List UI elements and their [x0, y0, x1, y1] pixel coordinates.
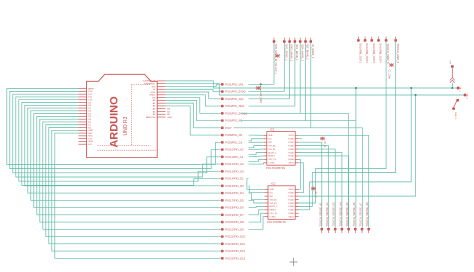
svg-text:D10: D10 — [88, 100, 93, 102]
wire jog to IC1 pin row 7 — [249, 159, 264, 161]
svg-text:OSC_IN: OSC_IN — [268, 159, 276, 161]
wire net PIO_SDA extension — [249, 105, 295, 107]
IC1 left pin OSC_IN — [263, 158, 267, 160]
arduino U1 left pin D2 — [79, 121, 87, 123]
svg-text:PCF-PCF8574N: PCF-PCF8574N — [267, 220, 286, 224]
supply symbol chevrons — [450, 78, 455, 83]
IC2 left pin OSC_IN — [265, 212, 269, 214]
wire jog to IC1 pin row 3 — [249, 146, 264, 148]
svg-text:PIO24/PIO_D12: PIO24/PIO_D12 — [225, 249, 245, 253]
wire net TOUCH_A_2 IC1 to bottom header — [299, 146, 329, 228]
wire net PIO12/PIO_A0 to IC1 pin — [249, 163, 264, 164]
wire net PIO8/PIO_D0 to IC1 pin — [249, 134, 264, 136]
pin header JP1 pin 19 — [221, 214, 223, 216]
svg-text:A5: A5 — [153, 113, 156, 116]
pin header JP3 pin 4 stub — [378, 37, 380, 40]
svg-text:P2/A2: P2/A2 — [288, 144, 294, 147]
svg-text:TOUCH_SENSE_A1: TOUCH_SENSE_A1 — [318, 202, 322, 227]
svg-text:RX0: RX0 — [88, 136, 93, 138]
pin header JP4 pin 8 — [368, 228, 370, 230]
wire net D13 to PIO10/PIO_A2 — [10, 91, 221, 168]
svg-text:TOUCH_SENSE_A8: TOUCH_SENSE_A8 — [365, 202, 369, 227]
svg-text:SCL_MAIN_1: SCL_MAIN_1 — [295, 44, 299, 61]
IC2 right pin P6/A6 — [295, 212, 299, 214]
IC2 right pin P5/A5 — [295, 209, 299, 211]
svg-text:D9: D9 — [88, 102, 92, 104]
svg-text:TOUCH_SENSE_A6: TOUCH_SENSE_A6 — [352, 202, 356, 227]
arduino U1 left pin D0 — [79, 127, 87, 129]
wire net PIO_VIN extension to JP2 pin1 — [249, 83, 275, 85]
pin header JP2 pin 4 stub — [294, 38, 296, 41]
wire net TOUCH_GND to IC2 P6 — [296, 42, 396, 206]
pin header JP1 pin 5 — [221, 112, 223, 114]
arduino U1 left pin D9 — [79, 102, 87, 104]
svg-text:GND: GND — [151, 92, 156, 94]
svg-text:PIO17/PIO_D5: PIO17/PIO_D5 — [225, 198, 244, 202]
svg-text:P5/A5: P5/A5 — [288, 155, 294, 158]
wire net A1 to PIO7 — [166, 103, 221, 128]
arduino U1 right pin IOREF/RST — [157, 83, 165, 85]
wire net D5 to PIO18/PIO_D6 — [34, 114, 221, 208]
svg-text:SALARM_OUT2: SALARM_OUT2 — [365, 43, 369, 63]
wire LED branch — [260, 84, 262, 91]
svg-text:PIO25/PIO_D13: PIO25/PIO_D13 — [225, 256, 245, 260]
pin header JP2 pin 7 stub — [310, 38, 312, 41]
pin header JP2 pin 4 — [294, 40, 296, 42]
svg-text:PIO16/PIO_D4: PIO16/PIO_D4 — [225, 191, 244, 195]
pin header JP4 pin 6 stub — [354, 231, 356, 234]
svg-text:RST: RST — [88, 133, 93, 135]
wire net SDA_MAIN_1 vertical drop — [299, 43, 301, 113]
IC2 left pin SCL — [265, 192, 269, 194]
wire net TOUCH_PWR to IC2 P7 — [296, 42, 386, 203]
wire net INT_MAIN_1 vertical drop — [305, 43, 307, 121]
svg-text:P3/A3: P3/A3 — [288, 148, 294, 151]
IC1 right pin P6/A6 — [295, 158, 299, 160]
IC2 PCF8574 body — [268, 186, 295, 220]
crystal X1 — [311, 187, 316, 191]
pin header JP1 pin 24 — [221, 250, 223, 252]
arduino U1 left pin D12 — [79, 93, 87, 95]
pin header JP2 pin 1 stub — [273, 38, 275, 41]
pin header JP1 pin 13 — [221, 170, 223, 172]
svg-text:PCF-PCF8574N: PCF-PCF8574N — [266, 166, 285, 170]
svg-text:P0/A0: P0/A0 — [288, 138, 294, 141]
IC2 right pin VDD3 — [295, 188, 299, 190]
arduino U1 left pin RST — [79, 132, 87, 134]
svg-text:TOUCH_PWR_5: TOUCH_PWR_5 — [386, 43, 390, 64]
svg-text:GND4: GND4 — [288, 163, 294, 165]
wire net D10 to PIO13/PIO_G0 — [19, 100, 221, 181]
svg-text:A1: A1 — [153, 102, 156, 105]
IC2 left pin TWI_A1 — [265, 202, 269, 204]
pin header JP1 pin 1 — [221, 83, 223, 85]
IC1 left pin SCL — [263, 138, 267, 140]
pin header JP3 pin 1 stub — [357, 37, 359, 40]
wire net RESET long wire B to right edge — [166, 84, 464, 95]
wire net AREF to PIO9/PIO_D1 — [7, 89, 221, 165]
svg-text:AREF: AREF — [88, 87, 94, 90]
arduino U1 right pin 5V0/MAX_IN — [157, 80, 165, 82]
arduino U1 left pin D3 — [79, 118, 87, 120]
svg-text:TX0: TX0 — [88, 138, 93, 140]
pin header JP4 pin 5 — [348, 228, 350, 230]
pin header JP4 pin 1 — [321, 228, 323, 230]
capacitor C1 — [389, 63, 394, 67]
svg-text:SDA: SDA — [269, 188, 274, 191]
IC1 left pin T_REC — [263, 162, 267, 164]
wire net A2 to PIO8/PIO_D0 — [166, 106, 221, 135]
pin header JP1 pin 7 — [221, 127, 223, 129]
IC2 right pin P0/A0 — [295, 192, 299, 194]
svg-text:IO_MAIN_1: IO_MAIN_1 — [311, 44, 315, 59]
wire net RST to PIO25/PIO_D13 — [55, 133, 221, 258]
pin header JP2 pin 6 — [304, 40, 306, 42]
svg-text:IOREF/RST: IOREF/RST — [144, 83, 156, 85]
IC1 left pin TWI_A0 — [263, 145, 267, 147]
pin header JP1 pin 25 — [221, 257, 223, 259]
wire net 5V to PIO2/PIO_5V0Q — [166, 89, 221, 91]
svg-text:LED_PWR: LED_PWR — [259, 92, 261, 103]
svg-text:TOUCH_SENSE_A4: TOUCH_SENSE_A4 — [338, 202, 342, 227]
wire net PIO9/PIO_D1 to IC1 pin — [249, 141, 264, 143]
wire net PIO19/PIO_D7 to IC2 pin — [249, 210, 265, 215]
svg-text:TOUCH_SENSE_A7: TOUCH_SENSE_A7 — [359, 202, 363, 227]
svg-text:P1/A1: P1/A1 — [288, 141, 294, 144]
arduino U1 dashed shield boundary — [98, 85, 157, 151]
LED LED1 — [256, 86, 261, 90]
wire net D4 to PIO19/PIO_D7 — [37, 116, 221, 214]
IC2 left pin /INT — [265, 195, 269, 197]
pin header JP1 pin 4 — [221, 105, 223, 107]
svg-text:INT_MAIN_1: INT_MAIN_1 — [306, 44, 310, 60]
wire supply to net A — [451, 83, 453, 89]
pin header JP1 pin 16 — [221, 192, 223, 194]
svg-text:GND: GND — [167, 117, 172, 119]
IC2 left pin SDA — [265, 188, 269, 190]
pin header JP1 pin 15 — [221, 185, 223, 187]
svg-text:SCL: SCL — [269, 193, 274, 195]
pin header JP3 pin 6 stub — [395, 37, 397, 40]
svg-text:P1/A1: P1/A1 — [288, 195, 294, 198]
arduino U1 left pin D6 — [79, 110, 87, 112]
arduino U1 right pin GND — [157, 91, 165, 93]
svg-text:PIO8/PIO_D0: PIO8/PIO_D0 — [225, 133, 242, 137]
arduino U1 right pin A5 — [157, 113, 165, 115]
pin header JP1 pin 22 — [221, 236, 223, 238]
svg-text:GND4: GND4 — [288, 216, 294, 218]
wire net TOUCH_A_3 IC1 to bottom header — [299, 149, 336, 227]
pin header JP1 pin 21 — [221, 228, 223, 230]
arduino U1 left pin AREF — [79, 88, 87, 90]
IC1 right pin P2/A2 — [295, 145, 299, 147]
pin header JP1 pin 14 — [221, 178, 223, 180]
pin header JP3 pin 4 — [377, 39, 379, 41]
arduino U1 left pin D7 — [79, 107, 87, 109]
svg-text:VA_1: VA_1 — [459, 87, 462, 93]
svg-text:PIO3/PIO_SCL: PIO3/PIO_SCL — [225, 97, 244, 101]
arduino U1 right pin 5V — [157, 88, 165, 90]
pin header JP1 pin 3 — [221, 98, 223, 100]
svg-text:RESET: RESET — [269, 210, 276, 212]
svg-text:GND2: GND2 — [149, 95, 156, 97]
IC1 right pin P4/A4 — [295, 152, 299, 154]
svg-text:5V0_SENS_1: 5V0_SENS_1 — [284, 44, 288, 61]
pin header JP4 pin 4 stub — [341, 231, 343, 234]
wire net GND_MAIN_1 vertical drop — [289, 43, 291, 99]
arduino U1 left pin D8 — [79, 104, 87, 106]
svg-text:PIO11/PIO_A1: PIO11/PIO_A1 — [225, 155, 243, 159]
svg-text:D1: D1 — [88, 125, 92, 127]
junction wire B drop — [415, 94, 417, 96]
svg-text:VIN: VIN — [152, 97, 156, 99]
svg-text:PIO7: PIO7 — [225, 126, 232, 130]
wire net IOREF long wire A to right edge — [166, 81, 457, 88]
pin header JP2 pin 7 — [310, 40, 312, 42]
svg-text:T_REC: T_REC — [268, 163, 275, 165]
arduino U1 left pin D1 — [79, 124, 87, 126]
diode D2 — [275, 54, 280, 58]
svg-text:ARDUINO: ARDUINO — [109, 96, 121, 148]
arduino U1 right pin GND2 — [157, 94, 165, 96]
svg-text:TOUCH_SENSE_A2: TOUCH_SENSE_A2 — [325, 202, 329, 227]
wire net 3V3 to PIO1/PIO_VIN — [166, 84, 221, 86]
svg-text:PIO1/PIO_VIN: PIO1/PIO_VIN — [225, 82, 243, 86]
wire net TOUCH_A_4 IC1 to bottom header — [299, 153, 342, 228]
svg-text:SALARM_OUT4: SALARM_OUT4 — [379, 43, 383, 63]
pin header JP3 pin 2 — [364, 39, 366, 41]
svg-text:GND_MAIN_1: GND_MAIN_1 — [290, 44, 294, 62]
svg-text:A0: A0 — [153, 99, 156, 102]
wire net PIO11/PIO_A1 to IC1 pin — [249, 155, 264, 158]
svg-text:SALARM_OUT3: SALARM_OUT3 — [372, 43, 376, 63]
pin header JP1 pin 12 — [221, 163, 223, 165]
wire jog to IC1 pin row 5 — [249, 153, 264, 155]
svg-text:PIO4/PIO_SDA: PIO4/PIO_SDA — [225, 104, 244, 108]
pin header JP4 pin 7 stub — [361, 231, 363, 234]
svg-text:UNO R3: UNO R3 — [123, 116, 129, 135]
wire net D7 to PIO16/PIO_D4 — [28, 108, 221, 193]
svg-text:R_PULLUP_1: R_PULLUP_1 — [274, 60, 276, 75]
wire net D1 to PIO22/PIO_D10 — [46, 125, 221, 237]
pin header JP4 pin 2 — [327, 228, 329, 230]
svg-text:5V: 5V — [153, 89, 156, 91]
svg-text:RESET: RESET — [268, 156, 275, 158]
arduino U1 left pin TX0 — [79, 138, 87, 140]
pin header JP2 pin 2 — [283, 40, 285, 42]
svg-text:A5: A5 — [167, 113, 170, 116]
arduino U1 left pin SDA — [79, 140, 87, 142]
wire net 5V0_SENS_1 vertical drop — [283, 43, 285, 92]
svg-text:/INT: /INT — [268, 142, 273, 144]
pin header JP2 pin 5 stub — [299, 38, 301, 41]
svg-text:TWI_A1: TWI_A1 — [268, 148, 276, 151]
wire net D12 to PIO11/PIO_A1 — [13, 94, 221, 173]
pin header JP4 pin 8 stub — [368, 231, 370, 234]
pin header JP3 pin 5 — [385, 39, 387, 41]
IC1 left pin ADDR_2 — [263, 152, 267, 154]
wire net A0 to PIO6/PIO_I01 — [166, 100, 221, 120]
IC1 left pin /INT — [263, 141, 267, 143]
svg-text:+5V: +5V — [450, 60, 452, 64]
svg-text:GND_1: GND_1 — [454, 112, 456, 120]
IC1 right pin P1/A1 — [295, 141, 299, 143]
svg-text:PIO6/PIO_I01: PIO6/PIO_I01 — [225, 119, 243, 123]
pin header JP4 pin 5 stub — [348, 231, 350, 234]
pin header JP4 pin 6 — [354, 228, 356, 230]
svg-text:AREF/SS: AREF/SS — [146, 116, 156, 119]
IC1 left pin RESET — [263, 155, 267, 157]
pin header JP1 pin 23 — [221, 243, 223, 245]
svg-text:ADDR_2: ADDR_2 — [269, 205, 278, 208]
pin header JP2 pin 5 — [299, 40, 301, 42]
IC2 right pin P3/A3 — [295, 202, 299, 204]
wire jog to IC1 pin row 1 — [249, 139, 264, 141]
wire net PIO15/PIO_D3 to IC2 pin — [249, 186, 265, 193]
IC2 left pin TWI_A0 — [265, 199, 269, 201]
svg-text:D5: D5 — [88, 113, 92, 115]
pin header JP4 pin 1 stub — [321, 231, 323, 234]
wire net D2 to PIO21/PIO_D9 — [43, 122, 221, 229]
svg-text:PIO2/PIO_5V0Q: PIO2/PIO_5V0Q — [225, 90, 245, 94]
pin P4 GND — [453, 108, 455, 110]
IC1 right pin P3/A3 — [295, 148, 299, 150]
wire net PIO_SCL extension — [249, 98, 290, 100]
wire net B drop to IC2 INT — [299, 95, 416, 196]
transistor Q1 diagonal — [454, 100, 458, 108]
IC1 right pin VDD3 — [295, 134, 299, 136]
svg-text:TOUCH_SENSE_A3: TOUCH_SENSE_A3 — [332, 202, 336, 227]
svg-text:D1_X: D1_X — [323, 142, 325, 148]
wire net PIO18/PIO_D6 to IC2 pin — [249, 206, 265, 207]
svg-text:TWI_A1: TWI_A1 — [269, 202, 277, 205]
svg-text:PIO10/PIO_A2: PIO10/PIO_A2 — [225, 148, 244, 152]
svg-text:5V0/MAX_IN: 5V0/MAX_IN — [143, 80, 156, 83]
svg-text:P6/A6: P6/A6 — [288, 212, 294, 215]
IC1 right pin GND4 — [295, 162, 299, 164]
wire net A drop to IC2 P5 — [296, 88, 411, 210]
wire net D9 to PIO14/PIO_D2 — [22, 103, 221, 186]
pin supply P1 — [451, 65, 453, 67]
pin header JP4 pin 4 — [341, 228, 343, 230]
arduino U1 left pin D10 — [79, 99, 87, 101]
svg-text:TWI_A0: TWI_A0 — [268, 144, 276, 147]
svg-text:PIO20/PIO_D8: PIO20/PIO_D8 — [225, 220, 244, 224]
svg-text:SCL: SCL — [88, 144, 93, 146]
svg-text:D3: D3 — [88, 119, 92, 121]
pin header JP3 pin 5 stub — [385, 37, 387, 40]
svg-text:D11: D11 — [88, 97, 93, 99]
IC1 left pin SDA — [263, 134, 267, 136]
IC1 right pin P5/A5 — [295, 155, 299, 157]
svg-text:SDA: SDA — [268, 134, 273, 137]
arduino U1 left pin D4 — [79, 115, 87, 117]
svg-text:VB_1: VB_1 — [465, 94, 467, 100]
pin header JP4 pin 7 — [361, 228, 363, 230]
svg-text:PIO14/PIO_D2: PIO14/PIO_D2 — [225, 177, 244, 181]
supply symbol stem — [451, 68, 453, 78]
wire net 5V0_MAIN_1 vertical drop — [273, 43, 275, 84]
svg-text:ADDR_2: ADDR_2 — [268, 151, 277, 154]
wire vertical tie bottom header pin 6 to wire A — [355, 88, 357, 121]
pin header JP1 pin 10 — [221, 149, 223, 151]
pin header JP2 pin 1 — [273, 40, 275, 42]
pin header JP3 pin 3 stub — [371, 37, 373, 40]
arduino U1 right pin AREF/SS — [157, 116, 165, 118]
svg-text:5V0_MAIN_1: 5V0_MAIN_1 — [274, 44, 278, 60]
diode D1 — [320, 137, 325, 141]
arduino U1 left pin SCL — [79, 143, 87, 145]
svg-text:P2/A2: P2/A2 — [288, 198, 294, 201]
wire net SCL_MAIN_1 vertical drop — [294, 43, 296, 106]
IC1 PCF8574 body — [267, 132, 295, 166]
svg-text:P3/A3: P3/A3 — [288, 202, 294, 205]
origin crosshair marker — [290, 258, 298, 266]
svg-text:A2: A2 — [153, 105, 156, 108]
svg-text:GND: GND — [88, 130, 93, 132]
svg-text:TOUCH_SENSE_A5: TOUCH_SENSE_A5 — [345, 202, 349, 227]
IC1 left pin TWI_A1 — [263, 148, 267, 150]
arduino U1 right pin A3 — [157, 108, 165, 110]
svg-text:SDA: SDA — [88, 140, 93, 143]
wire net D6 to PIO17/PIO_D5 — [31, 111, 221, 200]
arduino U1 right pin 3V3 — [157, 85, 165, 87]
IC2 left pin T_REC — [265, 216, 269, 218]
arduino U1 body outline — [87, 74, 158, 157]
pin header JP4 pin 3 — [334, 228, 336, 230]
svg-text:D12: D12 — [88, 94, 93, 96]
wire net PIO16/PIO_D4 to IC2 pin — [249, 193, 265, 200]
arduino U1 left pin D5 — [79, 113, 87, 115]
wire net PIO7 to bottom header pin 7 — [234, 128, 363, 228]
pin header JP3 pin 1 — [357, 39, 359, 41]
wire net IO_5V0Q2 to bottom header pin 5 — [241, 113, 349, 227]
junction LED tap on k0 — [260, 83, 262, 85]
svg-text:P4/A4: P4/A4 — [288, 151, 294, 154]
svg-text:VDD3: VDD3 — [288, 135, 294, 137]
pin header JP2 pin 3 — [289, 40, 291, 42]
pin header JP3 pin 2 stub — [364, 37, 366, 40]
wire net PIO17/PIO_D5 to IC2 pin — [249, 200, 265, 203]
pin header JP2 pin 2 stub — [283, 38, 285, 41]
svg-text:/INT: /INT — [269, 196, 274, 198]
wire net IC1 P3 to IC2 VDD — [299, 159, 301, 189]
svg-text:X1_Q: X1_Q — [314, 192, 316, 198]
junction supply and net A — [451, 87, 453, 89]
wire net GND to PIO3/PIO_SCL — [166, 92, 221, 99]
wire net VIN to PIO5/PIO_5V0Q2 — [166, 98, 221, 114]
svg-text:T_REC: T_REC — [269, 216, 276, 218]
wire net D0 to PIO23/PIO_D11 — [49, 128, 221, 244]
svg-text:A4: A4 — [167, 110, 170, 113]
pin header JP4 pin 2 stub — [328, 231, 330, 234]
pin P2 terminal net A — [457, 87, 459, 89]
wire net TOUCH_A_5 IC1 to bottom header — [299, 156, 349, 227]
pin Q1 collector — [457, 99, 459, 101]
wire net IO_I01 to bottom header pin 6 — [241, 121, 356, 228]
svg-text:PIO18/PIO_D6: PIO18/PIO_D6 — [225, 206, 244, 210]
svg-text:D6: D6 — [88, 111, 92, 113]
svg-text:SALARM_OUT1: SALARM_OUT1 — [359, 43, 363, 63]
arduino U1 right pin A4 — [157, 110, 165, 112]
IC2 right pin P4/A4 — [295, 205, 299, 207]
pin P3 terminal net B — [464, 94, 466, 96]
pin header JP3 pin 6 — [395, 39, 397, 41]
pin header JP1 pin 18 — [221, 207, 223, 209]
wire net TOUCH_A_8 from IC1 VDD — [299, 135, 369, 227]
wire net PIO14/PIO_D2 to IC2 pin — [247, 179, 265, 190]
wire net PIO_5V0Q extension to JP2 pin2 — [249, 91, 285, 93]
